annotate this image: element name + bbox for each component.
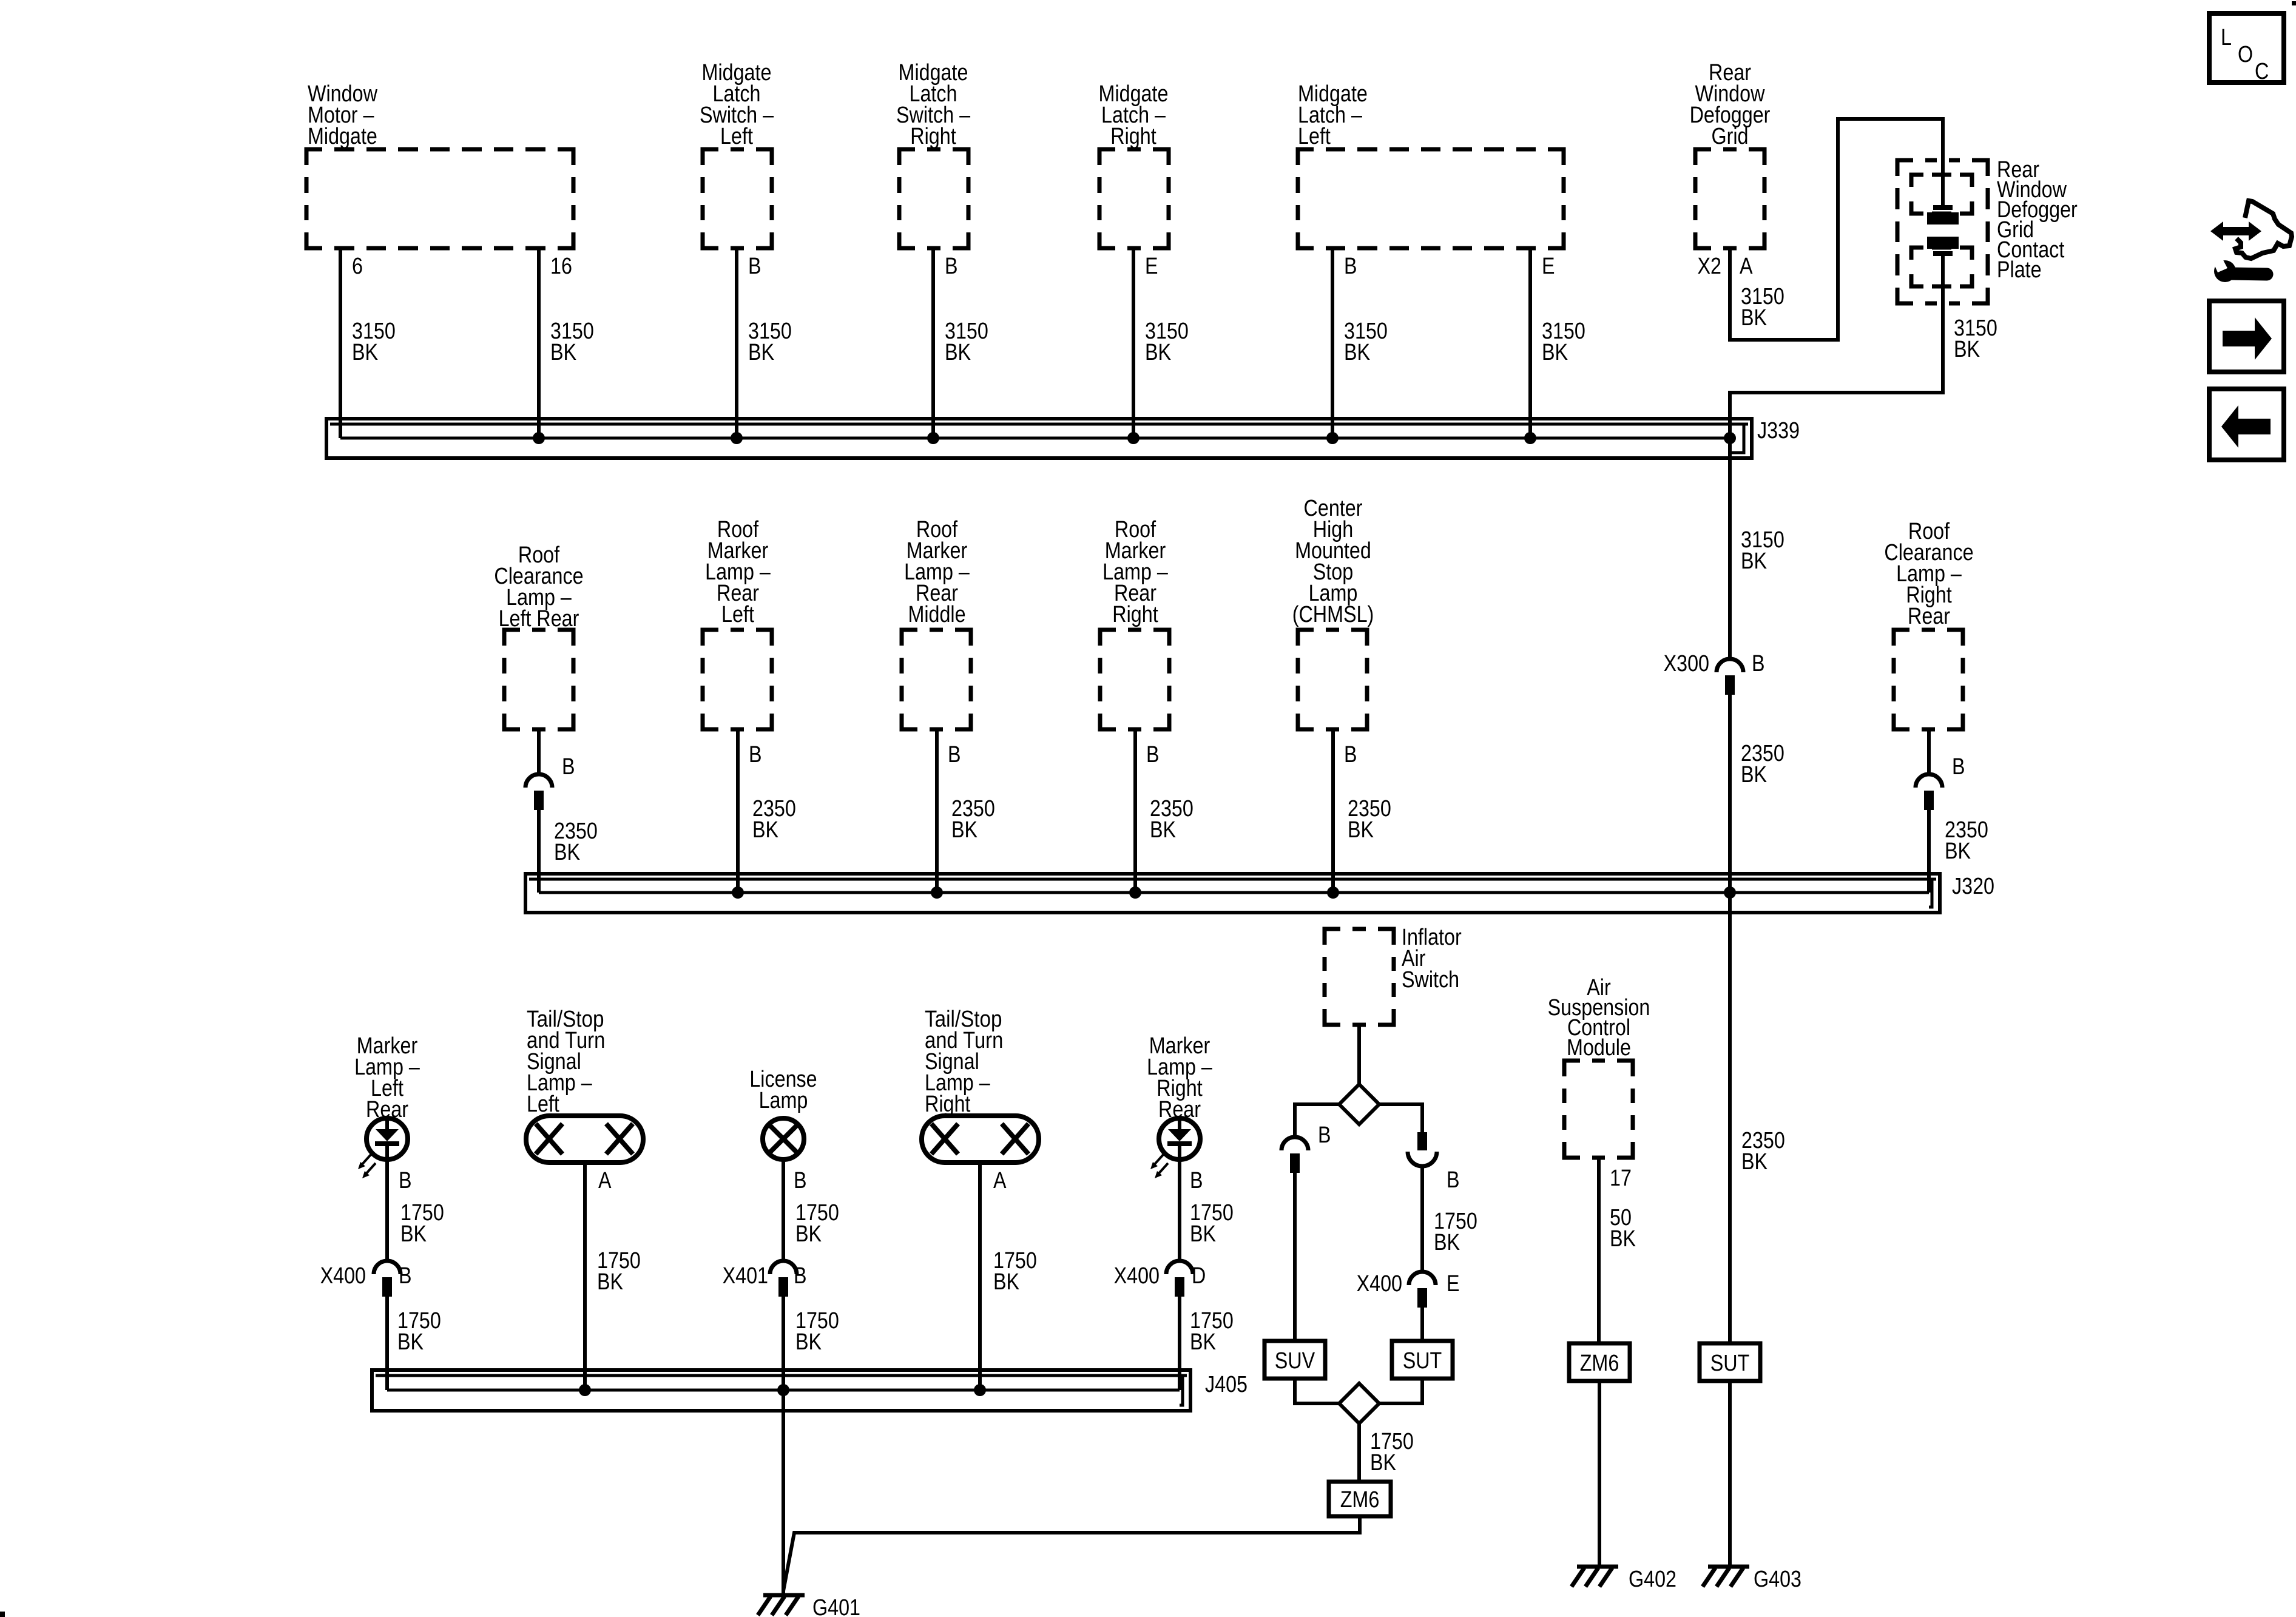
option split diamond (top) bbox=[1339, 1084, 1379, 1124]
component: Tail/Stop and Turn Signal Lamp - Left (dual lamp symbol) bbox=[526, 1007, 643, 1163]
svg-text:B: B bbox=[945, 254, 958, 279]
svg-text:Left: Left bbox=[1298, 124, 1331, 149]
wire: Midgate Latch Switch Right to J339, 3150 BK bbox=[933, 248, 988, 438]
svg-text:SUT: SUT bbox=[1710, 1351, 1750, 1376]
svg-text:BK: BK bbox=[1150, 817, 1176, 843]
svg-text:E: E bbox=[1447, 1271, 1460, 1297]
svg-text:B: B bbox=[1952, 754, 1965, 780]
component: Tail/Stop and Turn Signal Lamp - Right (dual lamp symbol) bbox=[922, 1007, 1039, 1163]
svg-text:Left Rear: Left Rear bbox=[499, 606, 579, 632]
pin B of Roof Marker Lamp Rear Right bbox=[1146, 742, 1160, 768]
svg-text:BK: BK bbox=[945, 340, 971, 365]
wire: Marker Lamp Left Rear to X400, 1750 BK bbox=[387, 1160, 444, 1262]
component: Roof Marker Lamp - Rear Right (dashed box) bbox=[1100, 517, 1169, 729]
component: Rear Window Defogger Grid (dashed box) bbox=[1690, 60, 1771, 248]
svg-text:BK: BK bbox=[1610, 1226, 1636, 1252]
svg-text:B: B bbox=[1752, 651, 1765, 677]
pin 17 of Air Suspension Control Module bbox=[1610, 1166, 1632, 1191]
svg-text:BK: BK bbox=[550, 340, 576, 365]
pin B of Roof Clearance Lamp Right Rear bbox=[1952, 754, 1965, 780]
component: License Lamp (lamp symbol) bbox=[749, 1067, 817, 1160]
page mark (bottom-left dot) bbox=[0, 1612, 5, 1617]
svg-text:BK: BK bbox=[951, 817, 977, 843]
component: Roof Clearance Lamp - Right Rear (dashed box) bbox=[1884, 519, 1973, 729]
svg-text:A: A bbox=[598, 1168, 612, 1193]
svg-text:B: B bbox=[748, 254, 761, 279]
pin B of Roof Clearance Lamp Left Rear bbox=[562, 754, 575, 780]
svg-text:D: D bbox=[1192, 1263, 1206, 1289]
svg-text:G403: G403 bbox=[1754, 1567, 1801, 1592]
component: Window Motor - Midgate (dashed box with label) bbox=[306, 81, 573, 248]
splice J405 (ground splice pack bus) bbox=[372, 1370, 1248, 1411]
svg-text:O: O bbox=[2238, 42, 2253, 67]
wire: ZM6 to ground G401 bbox=[783, 1516, 1360, 1591]
wire: connector to SUV option box bbox=[1293, 1173, 1297, 1341]
svg-text:J339: J339 bbox=[1757, 418, 1800, 444]
svg-text:BK: BK bbox=[1741, 762, 1767, 788]
svg-text:Left: Left bbox=[721, 602, 754, 627]
connector X300 pin B (inline connector) bbox=[1664, 651, 1765, 695]
component: Roof Clearance Lamp - Left Rear (dashed box) bbox=[494, 542, 583, 729]
svg-text:BK: BK bbox=[795, 1221, 822, 1247]
svg-text:Rear: Rear bbox=[1908, 604, 1950, 629]
svg-text:BK: BK bbox=[752, 817, 778, 843]
svg-text:B: B bbox=[399, 1168, 412, 1193]
svg-text:BK: BK bbox=[748, 340, 774, 365]
wire: X400 D to J405, 1750 BK bbox=[1180, 1297, 1234, 1390]
wire: CHMSL to J320, 2350 BK bbox=[1333, 729, 1391, 893]
option box SUV bbox=[1264, 1341, 1325, 1379]
svg-text:X401: X401 bbox=[723, 1263, 768, 1289]
component: Center High Mounted Stop Lamp CHMSL (dashed box) bbox=[1292, 496, 1374, 729]
option box ZM6 (inflator branch) bbox=[1329, 1482, 1391, 1516]
pin B of Roof Marker Lamp Rear Left bbox=[749, 742, 762, 768]
pin A of Tail/Stop Lamp Left bbox=[598, 1168, 612, 1193]
ground G401 bbox=[758, 1595, 860, 1617]
legend: service/repair pictograph with double arrow and wrench bbox=[2210, 201, 2292, 282]
option merge diamond (bottom) bbox=[1339, 1383, 1379, 1423]
svg-text:L: L bbox=[2221, 25, 2232, 50]
svg-text:16: 16 bbox=[550, 254, 572, 279]
svg-text:17: 17 bbox=[1610, 1166, 1632, 1191]
connector X400 pin B (marker lamp left) bbox=[320, 1261, 412, 1297]
svg-text:ZM6: ZM6 bbox=[1580, 1351, 1619, 1376]
svg-text:Left: Left bbox=[527, 1092, 559, 1117]
wire: diamond to SUV branch connector bbox=[1295, 1104, 1339, 1137]
wire: merge diamond to ZM6 box, 1750 BK bbox=[1359, 1423, 1414, 1482]
component: Air Suspension Control Module (dashed box) bbox=[1548, 975, 1650, 1158]
wire: Roof Clearance Lamp Left Rear to J320, 2350 BK bbox=[539, 810, 598, 893]
svg-text:BK: BK bbox=[352, 340, 378, 365]
svg-text:BK: BK bbox=[1741, 305, 1767, 331]
svg-text:Grid: Grid bbox=[1712, 124, 1749, 149]
wire: Midgate Latch Left pin B to J339, 3150 BK bbox=[1332, 248, 1388, 438]
component: Midgate Latch Switch - Right (dashed box) bbox=[896, 60, 971, 248]
svg-text:ZM6: ZM6 bbox=[1340, 1487, 1380, 1513]
svg-text:BK: BK bbox=[1945, 839, 1971, 864]
svg-text:BK: BK bbox=[1741, 549, 1767, 574]
ground G403 bbox=[1703, 1567, 1801, 1592]
svg-text:B: B bbox=[794, 1263, 807, 1289]
svg-text:BK: BK bbox=[1190, 1329, 1216, 1355]
wire: Window Motor pin 6 to J339, 3150 BK bbox=[340, 248, 396, 438]
svg-text:Module: Module bbox=[1567, 1035, 1631, 1061]
pin B of Marker Lamp Right Rear bbox=[1190, 1168, 1203, 1193]
wire: diamond to SUT branch connector bbox=[1379, 1104, 1422, 1132]
component: Inflator Air Switch (dashed box) bbox=[1325, 925, 1462, 1025]
splice J320 (ground splice pack bus) bbox=[525, 874, 1994, 913]
connector X400 pin E bbox=[1357, 1271, 1460, 1308]
wire: License Lamp to X401, 1750 BK bbox=[783, 1160, 839, 1262]
component: Roof Marker Lamp - Rear Left (dashed box) bbox=[703, 517, 772, 729]
svg-text:BK: BK bbox=[1145, 340, 1171, 365]
svg-text:BK: BK bbox=[1954, 337, 1980, 362]
wire: Midgate Latch Left pin E to J339, 3150 BK bbox=[1530, 248, 1585, 438]
svg-text:Right: Right bbox=[1112, 602, 1158, 627]
wire: SUV box to merge diamond bbox=[1295, 1379, 1339, 1403]
pin B of CHMSL bbox=[1344, 742, 1357, 768]
svg-text:BK: BK bbox=[1542, 340, 1568, 365]
wire: Roof Marker Lamp Rear Left to J320, 2350 BK bbox=[738, 729, 796, 893]
pin B of Marker Lamp Left Rear bbox=[399, 1168, 412, 1193]
svg-text:A: A bbox=[993, 1168, 1007, 1193]
option box SUT bbox=[1392, 1341, 1453, 1379]
svg-text:A: A bbox=[1740, 254, 1753, 279]
wire: Roof Clearance Lamp Right Rear to J320, 2350 BK bbox=[1929, 810, 1988, 893]
svg-text:BK: BK bbox=[795, 1329, 822, 1355]
svg-text:G402: G402 bbox=[1629, 1567, 1676, 1592]
svg-text:(CHMSL): (CHMSL) bbox=[1292, 602, 1374, 627]
svg-text:B: B bbox=[1190, 1168, 1203, 1193]
svg-text:Right: Right bbox=[910, 124, 956, 149]
wire: Contact Plate to J339, 3150 BK bbox=[1730, 254, 1997, 438]
svg-text:B: B bbox=[1318, 1122, 1331, 1148]
wire: connector to X400 pin E, 1750 BK bbox=[1422, 1165, 1477, 1272]
wire: Air Suspension Control Module to ZM6, 50 BK bbox=[1599, 1158, 1636, 1343]
pin B of Midgate Latch Switch - Left bbox=[748, 254, 761, 279]
wire: Defogger Grid pin A loop to Contact Plate, 3150 BK bbox=[1730, 119, 1943, 340]
svg-text:BK: BK bbox=[597, 1269, 623, 1295]
svg-text:J405: J405 bbox=[1205, 1372, 1248, 1397]
pin B of Roof Marker Lamp Rear Middle bbox=[948, 742, 961, 768]
component: Rear Window Defogger Grid Contact Plate (dashed boxes with contact bars) bbox=[1897, 157, 2078, 303]
wire: X400 E to SUT option box bbox=[1420, 1308, 1424, 1341]
svg-text:Right: Right bbox=[1110, 124, 1156, 149]
svg-text:C: C bbox=[2255, 59, 2269, 84]
wire: J339 to connector X300, 3150 BK bbox=[1730, 438, 1784, 659]
wire: ZM6 to ground G402 bbox=[1598, 1381, 1601, 1565]
legend: LOC box icon bbox=[2209, 13, 2284, 84]
svg-text:Right: Right bbox=[925, 1092, 971, 1117]
wire: SUT to ground G403 bbox=[1728, 1381, 1732, 1565]
svg-text:B: B bbox=[948, 742, 961, 768]
wire: Window Motor pin 16 to J339, 3150 BK bbox=[539, 248, 594, 438]
svg-text:BK: BK bbox=[993, 1269, 1019, 1295]
pin 6 of Window Motor bbox=[352, 254, 363, 279]
legend: forward arrow box bbox=[2209, 301, 2284, 372]
connector X400 pin D (marker lamp right) bbox=[1114, 1261, 1206, 1297]
component: Midgate Latch - Right (dashed box) bbox=[1099, 81, 1169, 248]
svg-text:Midgate: Midgate bbox=[308, 124, 377, 149]
svg-text:B: B bbox=[1344, 254, 1357, 279]
ground G402 bbox=[1572, 1567, 1676, 1592]
svg-text:X400: X400 bbox=[1114, 1263, 1160, 1289]
svg-text:B: B bbox=[399, 1263, 412, 1289]
option box ZM6 (air suspension branch) bbox=[1569, 1343, 1630, 1381]
svg-text:B: B bbox=[794, 1168, 807, 1193]
svg-text:BK: BK bbox=[1344, 340, 1370, 365]
svg-text:X400: X400 bbox=[320, 1263, 366, 1289]
page mark (top-right dot) bbox=[2292, 1, 2296, 5]
component: Roof Marker Lamp - Rear Middle (dashed box) bbox=[902, 517, 971, 729]
svg-text:X2: X2 bbox=[1698, 254, 1722, 279]
connector on Roof Clearance Lamp Left Rear wire bbox=[525, 729, 552, 810]
svg-text:BK: BK bbox=[1190, 1221, 1216, 1247]
svg-text:BK: BK bbox=[1434, 1230, 1460, 1255]
svg-text:Lamp: Lamp bbox=[759, 1088, 808, 1113]
svg-text:B: B bbox=[1146, 742, 1160, 768]
wire: SUT box to merge diamond bbox=[1379, 1379, 1422, 1403]
splice J339 (ground splice pack bus) bbox=[326, 418, 1800, 458]
wire: Marker Lamp Right Rear to X400 pin D, 1750 BK bbox=[1180, 1160, 1234, 1262]
svg-text:E: E bbox=[1145, 254, 1158, 279]
svg-text:B: B bbox=[562, 754, 575, 780]
pin X2 / A of Rear Window Defogger Grid bbox=[1698, 254, 1754, 279]
pin A of Tail/Stop Lamp Right bbox=[993, 1168, 1007, 1193]
pin B of Midgate Latch Switch - Right bbox=[945, 254, 958, 279]
svg-text:X400: X400 bbox=[1357, 1271, 1402, 1297]
svg-text:X300: X300 bbox=[1664, 651, 1709, 677]
wire: X400 to J405, 1750 BK bbox=[387, 1297, 441, 1390]
svg-text:Left: Left bbox=[720, 124, 753, 149]
wire: X401 through J405 to ground G401, 1750 BK bbox=[783, 1297, 839, 1595]
svg-text:SUV: SUV bbox=[1275, 1348, 1315, 1374]
wire: Roof Marker Lamp Rear Middle to J320, 2350 BK bbox=[937, 729, 995, 893]
connector X401 pin B (license lamp) bbox=[723, 1261, 807, 1297]
svg-text:BK: BK bbox=[1741, 1149, 1768, 1175]
pin B of License Lamp bbox=[794, 1168, 807, 1193]
svg-text:B: B bbox=[1344, 742, 1357, 768]
legend: back arrow box bbox=[2209, 389, 2284, 460]
component: Midgate Latch - Left (wide dashed box) bbox=[1298, 81, 1564, 248]
wire: Midgate Latch Right to J339, 3150 BK bbox=[1133, 248, 1189, 438]
svg-text:E: E bbox=[1542, 254, 1555, 279]
wire: Tail/Stop Lamp Right to J405, 1750 BK bbox=[980, 1162, 1037, 1390]
connector pin B (SUV branch) bbox=[1281, 1122, 1331, 1173]
wire: Tail/Stop Lamp Left to J405, 1750 BK bbox=[585, 1162, 641, 1390]
wire: X300 to J320, 2350 BK bbox=[1730, 695, 1784, 893]
svg-text:BK: BK bbox=[1348, 817, 1374, 843]
svg-text:6: 6 bbox=[352, 254, 363, 279]
component: Marker Lamp - Right Rear (LED lamp symbol) bbox=[1147, 1033, 1212, 1178]
svg-text:B: B bbox=[749, 742, 762, 768]
connector on Roof Clearance Lamp Right Rear wire bbox=[1916, 729, 1942, 810]
svg-text:BK: BK bbox=[554, 840, 580, 865]
pin E of Midgate Latch - Left bbox=[1542, 254, 1555, 279]
option box SUT (right) bbox=[1700, 1343, 1760, 1381]
svg-text:BK: BK bbox=[400, 1221, 427, 1247]
svg-text:BK: BK bbox=[1370, 1450, 1396, 1476]
component: Midgate Latch Switch - Left (dashed box) bbox=[700, 60, 774, 248]
svg-text:J320: J320 bbox=[1952, 874, 1994, 899]
svg-text:SUT: SUT bbox=[1403, 1348, 1442, 1374]
svg-text:Switch: Switch bbox=[1402, 967, 1459, 993]
wire: Roof Marker Lamp Rear Right to J320, 2350 BK bbox=[1135, 729, 1194, 893]
svg-text:G401: G401 bbox=[812, 1595, 860, 1617]
pin E of Midgate Latch - Right bbox=[1145, 254, 1158, 279]
wire: J320 to SUT option box, 2350 BK bbox=[1730, 893, 1785, 1343]
component: Marker Lamp - Left Rear (LED lamp symbol) bbox=[354, 1033, 420, 1178]
pin B of Midgate Latch - Left bbox=[1344, 254, 1357, 279]
svg-text:B: B bbox=[1447, 1167, 1460, 1193]
pin 16 of Window Motor bbox=[550, 254, 572, 279]
connector pin B (SUT branch, flipped) bbox=[1408, 1132, 1460, 1193]
wire: Inflator Air Switch to option diamond bbox=[1357, 1025, 1361, 1084]
svg-text:BK: BK bbox=[397, 1329, 424, 1355]
svg-text:Middle: Middle bbox=[908, 602, 965, 627]
svg-text:Plate: Plate bbox=[1997, 257, 2042, 283]
wire: Midgate Latch Switch Left to J339, 3150 BK bbox=[737, 248, 792, 438]
